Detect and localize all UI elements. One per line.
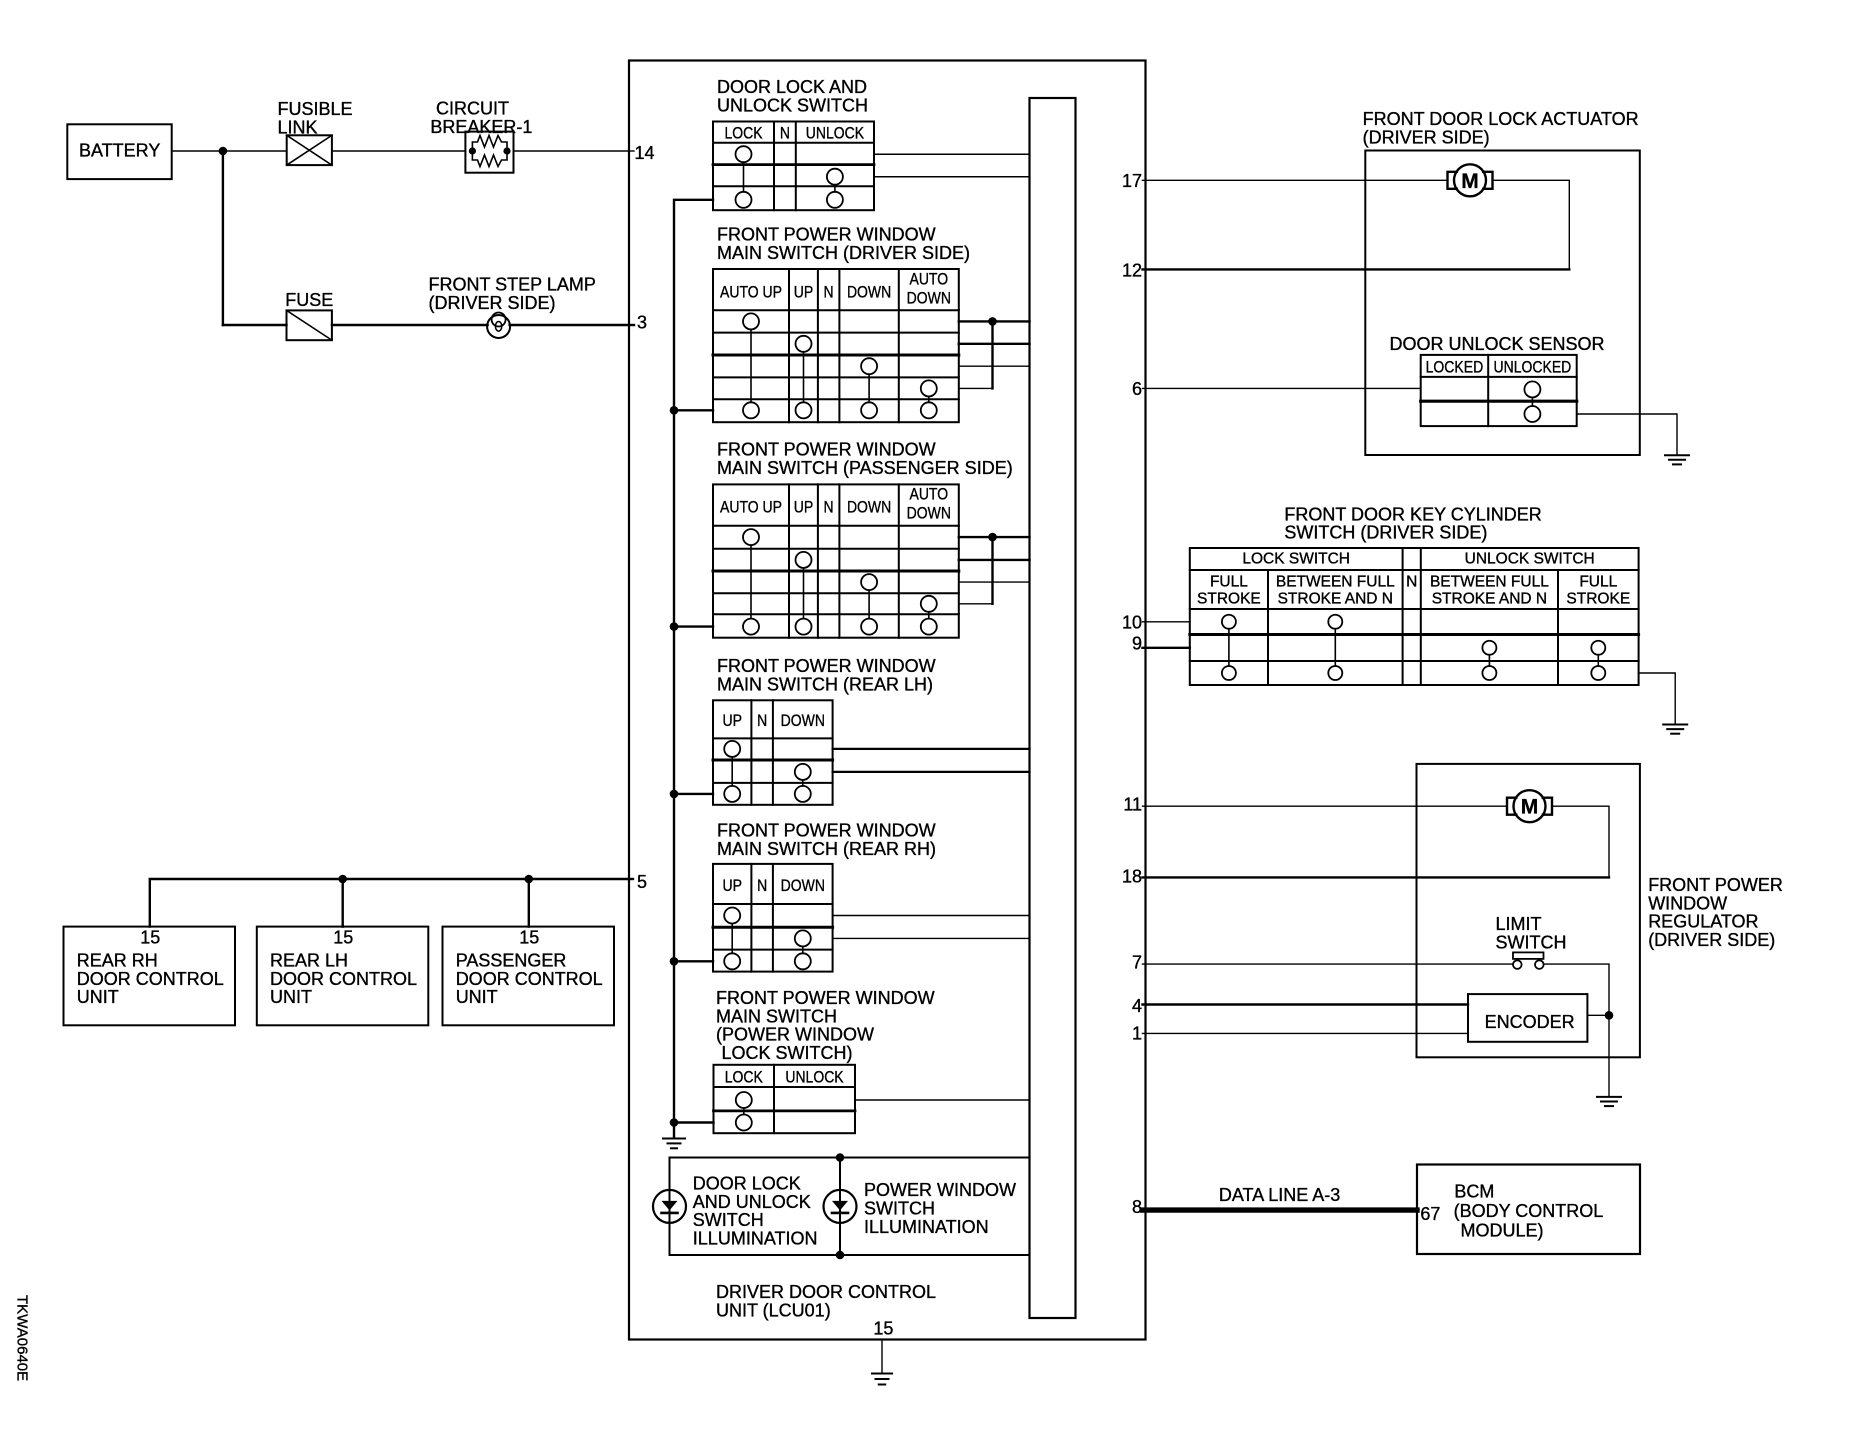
junction illumination top <box>836 1153 845 1162</box>
ground door lock actuator <box>1665 455 1689 464</box>
wire pin 9 to key cylinder <box>1143 647 1190 649</box>
wire lock switch common to trunk <box>674 1121 714 1123</box>
passenger door control unit <box>443 927 615 1026</box>
svg-text:DRIVER DOOR CONTROL: DRIVER DOOR CONTROL <box>716 1282 936 1302</box>
svg-text:ILLUMINATION: ILLUMINATION <box>693 1229 818 1249</box>
svg-text:TKWA0640E: TKWA0640E <box>14 1295 31 1381</box>
wire junction to fusible link <box>223 150 287 152</box>
svg-text:FRONT POWER WINDOW: FRONT POWER WINDOW <box>717 440 936 460</box>
wire circuit breaker to pin 14 <box>514 150 630 152</box>
wire rear LH row2 to bus <box>833 771 1030 773</box>
wire encoder to ground <box>1587 1014 1609 1016</box>
svg-text:FRONT STEP LAMP: FRONT STEP LAMP <box>429 275 596 295</box>
svg-text:11: 11 <box>1123 795 1142 815</box>
svg-text:UNIT (LCU01): UNIT (LCU01) <box>716 1301 831 1321</box>
svg-text:DOWN: DOWN <box>847 498 891 517</box>
svg-text:WINDOW: WINDOW <box>1648 893 1727 913</box>
wire door lock row2 to bus <box>874 176 1030 178</box>
wire rear RH row1 to bus <box>833 915 1030 917</box>
wire lock switch row1 to bus <box>855 1099 1030 1101</box>
svg-text:STROKE AND N: STROKE AND N <box>1432 591 1547 608</box>
svg-text:15: 15 <box>333 928 353 948</box>
svg-text:BETWEEN FULL: BETWEEN FULL <box>1276 573 1395 590</box>
driver switch UP contacts <box>796 336 812 352</box>
svg-text:DOOR CONTROL: DOOR CONTROL <box>270 969 417 989</box>
svg-text:LINK: LINK <box>278 117 318 137</box>
svg-text:(POWER WINDOW: (POWER WINDOW <box>716 1025 874 1045</box>
svg-text:DATA LINE A-3: DATA LINE A-3 <box>1219 1185 1340 1205</box>
wire rear LH row1 to bus <box>833 748 1030 750</box>
svg-text:LOCK SWITCH: LOCK SWITCH <box>1242 551 1350 568</box>
wire pin 11 to window motor <box>1143 805 1508 807</box>
illumination divider wire <box>839 1158 841 1256</box>
svg-text:AND UNLOCK: AND UNLOCK <box>693 1192 811 1212</box>
svg-text:AUTO: AUTO <box>910 485 949 504</box>
encoder box <box>1468 994 1587 1042</box>
pin 14 <box>629 150 634 152</box>
svg-text:DOOR LOCK: DOOR LOCK <box>693 1174 801 1194</box>
LED door lock illumination <box>653 1190 686 1223</box>
pin 5 <box>629 878 633 880</box>
svg-text:LOCK: LOCK <box>724 123 763 142</box>
power window lock switch contacts <box>736 1092 752 1108</box>
svg-text:6: 6 <box>1132 379 1142 399</box>
junction passenger drop <box>525 875 534 884</box>
svg-text:BETWEEN FULL: BETWEEN FULL <box>1430 573 1549 590</box>
svg-text:BCM: BCM <box>1454 1182 1494 1202</box>
wire pin 4 to encoder <box>1143 1003 1469 1005</box>
front power window regulator box <box>1417 764 1640 1057</box>
svg-text:MAIN SWITCH: MAIN SWITCH <box>716 1006 837 1026</box>
wire fusible link to circuit breaker <box>332 150 466 152</box>
fusible link <box>287 135 332 165</box>
ground key cylinder switch <box>1663 725 1687 734</box>
svg-text:8: 8 <box>1132 1197 1142 1217</box>
svg-text:UNLOCK SWITCH: UNLOCK SWITCH <box>717 95 868 115</box>
wire pin 5 branch <box>150 879 629 927</box>
wire passenger row4 <box>959 603 993 605</box>
svg-text:PASSENGER: PASSENGER <box>456 951 567 971</box>
svg-text:(DRIVER SIDE): (DRIVER SIDE) <box>429 293 556 313</box>
svg-text:10: 10 <box>1122 613 1142 633</box>
svg-text:DOOR LOCK AND: DOOR LOCK AND <box>717 77 867 97</box>
svg-text:MAIN SWITCH (REAR LH): MAIN SWITCH (REAR LH) <box>717 674 933 694</box>
svg-text:REAR LH: REAR LH <box>270 951 348 971</box>
svg-text:ENCODER: ENCODER <box>1485 1012 1575 1032</box>
svg-text:STROKE: STROKE <box>1566 591 1630 608</box>
svg-text:UP: UP <box>794 498 814 517</box>
wire window motor to pin 18 <box>1146 806 1610 877</box>
svg-text:4: 4 <box>1132 996 1142 1016</box>
illumination module box <box>670 1158 1030 1256</box>
svg-text:UNIT: UNIT <box>77 987 119 1007</box>
svg-text:DOWN: DOWN <box>847 283 891 302</box>
svg-text:N: N <box>757 711 767 730</box>
rear LH UP contacts <box>724 741 740 757</box>
svg-text:BATTERY: BATTERY <box>79 141 160 161</box>
svg-text:UP: UP <box>794 283 814 302</box>
svg-text:STROKE AND N: STROKE AND N <box>1278 591 1393 608</box>
svg-text:SWITCH: SWITCH <box>864 1199 935 1219</box>
svg-text:DOOR UNLOCK SENSOR: DOOR UNLOCK SENSOR <box>1390 334 1605 354</box>
pin 3 <box>629 324 634 326</box>
ground trunk ground symbol <box>663 1139 685 1149</box>
passenger switch DOWN contacts <box>861 574 877 590</box>
svg-text:7: 7 <box>1132 953 1142 973</box>
wire pin 18 bold segment <box>1143 876 1610 878</box>
front power window main switch driver table <box>713 269 959 422</box>
wire rear LH drop <box>342 879 344 927</box>
svg-text:LIMIT: LIMIT <box>1496 914 1542 934</box>
svg-text:FULL: FULL <box>1210 573 1248 590</box>
wire passenger common to trunk <box>674 625 713 627</box>
svg-text:FUSIBLE: FUSIBLE <box>278 99 353 119</box>
svg-text:3: 3 <box>637 312 647 332</box>
svg-text:DOWN: DOWN <box>907 504 951 523</box>
front power window main switch rear RH table <box>713 864 833 972</box>
svg-text:15: 15 <box>140 928 160 948</box>
wire pin 6 to sensor <box>1143 387 1421 389</box>
key cylinder unlock between contacts <box>1482 641 1496 655</box>
ground window regulator <box>1597 1097 1621 1106</box>
svg-text:MAIN SWITCH (PASSENGER SIDE): MAIN SWITCH (PASSENGER SIDE) <box>717 458 1013 478</box>
key cylinder lock full stroke contacts <box>1222 615 1236 629</box>
wire pin 1 to encoder <box>1143 1032 1469 1034</box>
battery <box>67 124 171 179</box>
wire passenger drop <box>528 879 530 927</box>
key cylinder unlock full stroke contacts <box>1591 641 1605 655</box>
junction driver row1 <box>988 317 997 326</box>
svg-text:9: 9 <box>1132 634 1142 654</box>
svg-text:MAIN SWITCH (REAR RH): MAIN SWITCH (REAR RH) <box>717 839 936 859</box>
svg-text:17: 17 <box>1122 171 1142 191</box>
svg-text:CIRCUIT: CIRCUIT <box>436 99 509 119</box>
wire driver row1 to row4 vertical <box>991 321 993 388</box>
wire pin 17 to lock motor <box>1143 179 1448 181</box>
rear LH door control unit <box>257 927 429 1026</box>
svg-text:AUTO: AUTO <box>910 270 949 289</box>
svg-text:1: 1 <box>1132 1024 1142 1044</box>
wire driver row1 to bus <box>959 320 1030 322</box>
front door lock actuator box <box>1365 151 1640 456</box>
ground main unit <box>872 1374 892 1385</box>
svg-text:5: 5 <box>637 872 647 892</box>
svg-text:SWITCH: SWITCH <box>1496 932 1567 952</box>
svg-text:N: N <box>780 123 790 142</box>
svg-text:UP: UP <box>722 876 742 895</box>
internal bus bar <box>1030 98 1076 1318</box>
front power window main switch passenger table <box>713 484 959 637</box>
junction rear LH drop <box>338 875 347 884</box>
wire passenger row1 to bus <box>959 536 1030 538</box>
front step lamp <box>487 315 510 338</box>
wire battery junction down <box>222 151 224 325</box>
driver switch AUTO UP contacts <box>743 313 759 329</box>
svg-text:N: N <box>1406 573 1417 590</box>
circuit breaker CB-1 <box>465 132 513 173</box>
svg-text:15: 15 <box>519 928 539 948</box>
ground trunk wire <box>674 200 713 1138</box>
junction trunk lock switch common <box>670 1118 679 1127</box>
door lock and unlock switch table <box>713 122 874 211</box>
svg-text:SWITCH (DRIVER SIDE): SWITCH (DRIVER SIDE) <box>1284 523 1487 543</box>
front power window main switch rear LH table <box>713 700 833 805</box>
fuse <box>287 310 332 340</box>
svg-text:REAR RH: REAR RH <box>77 951 158 971</box>
svg-text:(DRIVER SIDE): (DRIVER SIDE) <box>1363 127 1490 147</box>
svg-text:AUTO UP: AUTO UP <box>720 498 782 517</box>
svg-text:LOCK: LOCK <box>725 1068 764 1087</box>
driver door control unit LCU01 box <box>629 61 1146 1340</box>
svg-text:FRONT POWER WINDOW: FRONT POWER WINDOW <box>717 225 936 245</box>
wire key cylinder to ground <box>1639 673 1676 725</box>
wire step lamp to pin 3 <box>510 324 629 326</box>
wire passenger row3 to bus <box>959 581 1030 583</box>
svg-text:DOWN: DOWN <box>781 876 825 895</box>
wire passenger row1 to row4 vertical <box>991 537 993 604</box>
svg-text:FRONT POWER: FRONT POWER <box>1648 875 1783 895</box>
limit switch <box>1513 952 1544 959</box>
svg-text:FRONT DOOR LOCK ACTUATOR: FRONT DOOR LOCK ACTUATOR <box>1363 109 1639 129</box>
junction trunk rear LH switch common <box>670 790 679 799</box>
driver switch DOWN contacts <box>861 358 877 374</box>
svg-text:UNIT: UNIT <box>456 987 498 1007</box>
svg-text:15: 15 <box>873 1319 893 1339</box>
rear RH DOWN contacts <box>795 930 811 946</box>
svg-text:ILLUMINATION: ILLUMINATION <box>864 1217 989 1237</box>
rear LH DOWN contacts <box>795 764 811 780</box>
svg-text:M: M <box>1461 170 1479 193</box>
svg-text:UNLOCK SWITCH: UNLOCK SWITCH <box>1465 551 1595 568</box>
wire driver row4 <box>959 387 993 389</box>
door unlock sensor contacts <box>1524 381 1540 397</box>
wire rear RH common to trunk <box>674 960 713 962</box>
wire pin 10 to key cylinder <box>1143 621 1190 623</box>
svg-text:M: M <box>1521 796 1539 819</box>
door lock switch UNLOCK contacts <box>827 169 843 185</box>
svg-text:(BODY CONTROL: (BODY CONTROL <box>1454 1201 1604 1221</box>
svg-text:STROKE: STROKE <box>1197 591 1261 608</box>
junction trunk passenger switch common <box>670 622 679 631</box>
power window lock switch table <box>714 1065 856 1133</box>
wire pin 15 to ground <box>881 1340 883 1374</box>
svg-text:MAIN SWITCH (DRIVER SIDE): MAIN SWITCH (DRIVER SIDE) <box>717 243 970 263</box>
rear RH UP contacts <box>724 908 740 924</box>
passenger switch UP contacts <box>796 552 812 568</box>
svg-text:N: N <box>824 283 834 302</box>
svg-text:DOWN: DOWN <box>907 289 951 308</box>
wire rear LH common to trunk <box>674 793 713 795</box>
wire pin 7 to limit switch <box>1143 963 1513 965</box>
svg-text:FUSE: FUSE <box>285 290 333 310</box>
wire junction to fuse <box>223 324 287 326</box>
svg-text:DOOR CONTROL: DOOR CONTROL <box>77 969 224 989</box>
svg-text:DOOR CONTROL: DOOR CONTROL <box>456 969 603 989</box>
wire door lock row1 to bus <box>874 153 1030 155</box>
svg-text:UNLOCK: UNLOCK <box>785 1068 844 1087</box>
svg-text:FULL: FULL <box>1579 573 1617 590</box>
door lock motor M <box>1454 164 1486 196</box>
svg-text:12: 12 <box>1122 260 1142 280</box>
svg-text:67: 67 <box>1420 1204 1440 1224</box>
window motor M <box>1514 790 1546 822</box>
wire fuse to step lamp <box>332 324 488 326</box>
svg-text:FRONT DOOR KEY CYLINDER: FRONT DOOR KEY CYLINDER <box>1284 504 1541 524</box>
driver switch AUTO DOWN contacts <box>921 380 937 396</box>
svg-text:(DRIVER SIDE): (DRIVER SIDE) <box>1648 930 1775 950</box>
LED power window illumination <box>824 1190 857 1223</box>
svg-text:UNIT: UNIT <box>270 987 312 1007</box>
passenger switch AUTO DOWN contacts <box>921 596 937 612</box>
svg-text:FRONT POWER WINDOW: FRONT POWER WINDOW <box>717 821 936 841</box>
svg-text:UNLOCK: UNLOCK <box>806 123 865 142</box>
passenger switch AUTO UP contacts <box>743 529 759 545</box>
wire pin 12 bold segment <box>1143 268 1570 270</box>
svg-text:UP: UP <box>722 711 742 730</box>
junction encoder output <box>1605 1011 1614 1020</box>
svg-text:BREAKER-1: BREAKER-1 <box>430 117 532 137</box>
svg-text:18: 18 <box>1122 867 1142 887</box>
svg-text:POWER WINDOW: POWER WINDOW <box>864 1180 1016 1200</box>
front door key cylinder switch table <box>1190 548 1639 685</box>
svg-text:DOWN: DOWN <box>781 711 825 730</box>
svg-text:FRONT POWER WINDOW: FRONT POWER WINDOW <box>717 656 936 676</box>
junction trunk rear RH switch common <box>670 957 679 966</box>
svg-text:FRONT POWER WINDOW: FRONT POWER WINDOW <box>716 988 935 1008</box>
wire battery to junction <box>172 150 223 152</box>
wire lock motor to pin 12 <box>1143 180 1570 269</box>
svg-text:REGULATOR: REGULATOR <box>1648 912 1758 932</box>
wire limit switch to encoder junction <box>1544 964 1609 1015</box>
data line A-3 wire <box>1143 1207 1418 1212</box>
junction illumination bottom <box>836 1251 845 1260</box>
svg-text:MODULE): MODULE) <box>1461 1221 1544 1241</box>
BCM body control module <box>1417 1165 1640 1255</box>
svg-text:LOCK SWITCH): LOCK SWITCH) <box>722 1043 853 1063</box>
junction battery feed <box>219 147 228 156</box>
door lock switch LOCK contacts <box>736 146 752 162</box>
svg-text:N: N <box>757 876 767 895</box>
key cylinder lock between contacts <box>1328 615 1342 629</box>
svg-text:LOCKED: LOCKED <box>1426 358 1484 377</box>
svg-text:N: N <box>824 498 834 517</box>
wire driver row3 to bus <box>959 365 1030 367</box>
svg-text:AUTO UP: AUTO UP <box>720 283 782 302</box>
wire passenger row2 to bus <box>959 559 1030 561</box>
svg-text:SWITCH: SWITCH <box>693 1210 764 1230</box>
wire driver common to trunk <box>674 409 713 411</box>
rear RH door control unit <box>64 927 236 1026</box>
junction trunk driver switch common <box>670 406 679 415</box>
wire rear RH row2 to bus <box>833 937 1030 939</box>
junction passenger row1 <box>988 533 997 542</box>
wire sensor to ground <box>1577 414 1677 455</box>
door unlock sensor table <box>1421 355 1577 426</box>
wire driver row2 to bus <box>959 343 1030 345</box>
svg-text:UNLOCKED: UNLOCKED <box>1494 358 1572 377</box>
svg-text:14: 14 <box>635 143 655 163</box>
